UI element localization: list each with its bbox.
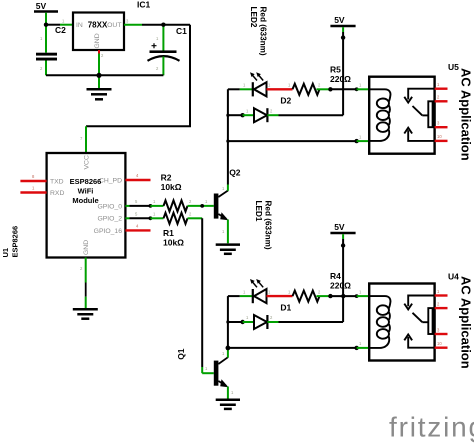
svg-text:U4: U4 xyxy=(448,272,459,282)
svg-text:220Ω: 220Ω xyxy=(330,281,351,291)
svg-text:U5: U5 xyxy=(448,62,459,72)
svg-text:TXD: TXD xyxy=(50,179,64,186)
svg-text:D1: D1 xyxy=(280,302,291,312)
svg-text:R1: R1 xyxy=(163,228,174,238)
svg-text:Red (633nm): Red (633nm) xyxy=(258,7,267,56)
svg-text:LED2: LED2 xyxy=(249,7,258,28)
svg-text:Module: Module xyxy=(72,196,98,205)
svg-text:5V: 5V xyxy=(334,222,345,232)
svg-text:LED1: LED1 xyxy=(254,201,263,222)
svg-text:U1: U1 xyxy=(1,248,10,258)
svg-text:R4: R4 xyxy=(330,271,341,281)
svg-text:GND: GND xyxy=(83,240,90,255)
svg-text:D2: D2 xyxy=(280,96,291,106)
svg-text:10: 10 xyxy=(437,134,442,139)
svg-text:Red (633nm): Red (633nm) xyxy=(264,201,273,250)
svg-text:5V: 5V xyxy=(334,15,345,25)
svg-text:R2: R2 xyxy=(161,173,172,183)
svg-text:GPIO_16: GPIO_16 xyxy=(94,228,123,235)
svg-text:Q2: Q2 xyxy=(229,168,241,178)
svg-text:220Ω: 220Ω xyxy=(330,74,351,84)
svg-text:10: 10 xyxy=(437,341,442,346)
svg-text:fritzing: fritzing xyxy=(389,412,474,443)
svg-text:CH_PD: CH_PD xyxy=(99,178,122,185)
svg-text:AC Application: AC Application xyxy=(459,276,474,369)
svg-text:GPIO_2: GPIO_2 xyxy=(97,216,122,223)
svg-text:WiFi: WiFi xyxy=(78,187,94,196)
svg-text:IC1: IC1 xyxy=(137,0,151,10)
svg-text:Q1: Q1 xyxy=(176,348,186,360)
svg-text:10kΩ: 10kΩ xyxy=(161,182,182,192)
svg-text:GPIO_0: GPIO_0 xyxy=(97,203,122,210)
svg-text:ESP8266: ESP8266 xyxy=(10,226,19,258)
svg-text:RXD: RXD xyxy=(50,190,64,197)
svg-text:ESP8266: ESP8266 xyxy=(70,177,102,186)
svg-text:5V: 5V xyxy=(36,1,47,11)
svg-text:10kΩ: 10kΩ xyxy=(163,238,184,248)
svg-text:IN: IN xyxy=(76,22,83,29)
svg-text:C1: C1 xyxy=(176,26,187,36)
svg-text:OUT: OUT xyxy=(107,22,121,29)
svg-text:R5: R5 xyxy=(330,65,341,75)
svg-text:AC Application: AC Application xyxy=(459,68,474,161)
svg-text:78XX: 78XX xyxy=(88,21,108,30)
svg-text:GND: GND xyxy=(94,33,101,48)
svg-text:C2: C2 xyxy=(55,25,66,35)
svg-text:VCC: VCC xyxy=(84,155,91,169)
